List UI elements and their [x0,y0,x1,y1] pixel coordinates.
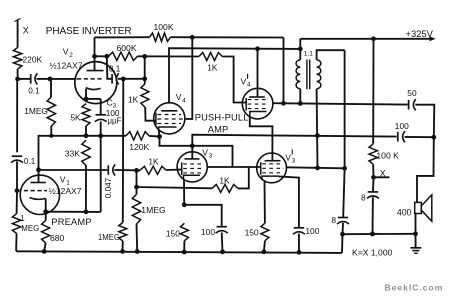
junction 150-b ground [262,249,267,254]
resistor 1K-c (V3 grid) [140,166,166,174]
junction 0.1 coupling branch [104,54,109,59]
wire A right of cap [405,136,434,138]
resistor 150-a [180,223,188,241]
tube V3 plate riser [191,146,193,159]
junction 1K-d branch [134,185,139,190]
wire V2 plate riser to rail [94,37,96,56]
label 1 MEG (left bottom) [20,214,39,233]
resistor 1K (coupling row) [199,53,222,61]
wire 1K-d row left [137,187,213,188]
label V3 [202,147,213,159]
tube V4 cathode lead [158,132,161,137]
wire V'3 cathode bypass jog [279,176,299,227]
junction 5K-bus [84,133,89,138]
tube V1 cathode [30,198,46,200]
label V4 [176,92,187,104]
label 100 (output upper) [395,121,409,131]
wire 100K-b to X node [372,164,374,177]
label V1 [60,174,71,186]
svg-text:V: V [63,47,69,57]
tube V2 plate bar [87,70,104,72]
wire left rail upper [16,79,18,152]
junction 1MEG-b ground [120,249,125,254]
svg-text:V: V [60,174,66,184]
label 0.047 [104,177,113,198]
tube V3 plate side wire [207,166,232,168]
tube V'4 plate riser [257,49,259,97]
capacitor 100-b (V3 bypass) [216,227,228,233]
wire cap to V2 grid [37,78,51,80]
wire 150-b to rail [264,241,265,252]
wire +325V rail [300,38,433,40]
wire 33K down to cathode row [85,165,87,211]
capacitor 100 (output, upper) [398,131,405,142]
wire 1MEG-b down [122,79,125,223]
tube V1 envelope [20,175,59,214]
capacitor 8-a [367,192,379,199]
svg-text:V: V [241,76,247,86]
svg-text:120K: 120K [129,142,149,152]
svg-text:1K: 1K [148,156,159,166]
wire rail corner down to V'4 plate row [283,38,285,104]
wire 1K-d to V'3 grid [238,167,249,188]
wire 600K to 1K row [138,55,199,57]
wire bottom rail corner up [341,234,344,253]
svg-text:4: 4 [182,97,186,104]
label 150-a [166,228,180,238]
resistor 680 [42,221,50,244]
resistor 1MEG-b (bottom) [119,223,127,242]
junction wireA-speaker feed [431,135,436,140]
wire C3 to bus [100,122,102,136]
resistor 1K-a (V4 grid) [141,84,149,107]
svg-text:33K: 33K [65,148,81,158]
junction V1 grid node [15,188,20,193]
label 0.1 (V2 plate coupling) [109,64,121,73]
label 100-c (V'3 bypass) [305,226,319,236]
junction transformer primary top [298,47,303,52]
svg-text:PUSH-PULL: PUSH-PULL [195,113,249,123]
wire V3 cathode bypass jog [184,205,222,226]
label 1MEG-c (V3 grid leak) [141,205,166,215]
wire 1K-c to V3 grid [166,169,182,171]
wire 100-c to rail [298,234,300,253]
svg-text:1K: 1K [219,176,230,186]
tube V'4 cathode to V'3 top [250,116,273,159]
svg-text:100: 100 [395,121,409,131]
junction V2 plate node [92,54,97,59]
tube V'4 grid box [246,98,269,111]
tube V2 grid (dashed) [77,78,104,80]
label K=X 1,000 [352,247,393,257]
svg-text:1K: 1K [207,63,218,73]
svg-text:V: V [176,92,182,102]
svg-text:1:1: 1:1 [304,50,313,57]
wire 8-a to rail [372,197,374,234]
tube V'4 cathode [250,112,267,116]
capacitor C3 100uuF [95,115,107,122]
transformer T1 secondary [317,50,345,88]
svg-text:BeekIC.com: BeekIC.com [385,283,444,293]
tube V'4 plate side wire [273,103,408,104]
wire 50 cap to corner [415,105,434,138]
tube V1 plate bar [30,182,45,184]
label 5K [70,113,81,123]
wire 1MEG-c to rail [136,224,139,252]
tube V2 envelope [75,62,117,104]
label 1/2 12AX7 (V2) [50,60,83,70]
wire right rail [343,233,416,235]
wire 8-b to rail [342,223,345,234]
label 8-a [361,192,366,202]
capacitor 0.1-c (left rail) [11,156,23,162]
wire bus V1 plate corner [39,136,127,170]
label 680 [50,233,65,243]
capacitor 0.1 input [31,73,38,84]
svg-text:X: X [23,26,29,36]
wire 0.047 row [39,169,108,171]
label watermark [385,283,444,293]
junction 1K-a / 0.1b [142,76,147,81]
capacitor 0.047 [108,164,115,175]
resistor 120K [126,132,149,140]
wire 1K row corner [222,57,246,103]
tube V3 envelope [177,152,207,182]
wire secondary bottom [316,89,319,168]
junction V1 cathode node [43,209,48,214]
junction node X (output tap) [371,175,376,180]
tube V'3 plate side wire [286,167,344,168]
junction 33K cathode row [84,209,89,214]
junction right rail / 100K-b [370,232,375,237]
resistor 1MEG-a (left rail) [12,214,20,234]
tube V'3 plate riser [271,159,273,161]
tube V2 cathode [86,88,101,90]
junction 1MEG-bus [49,134,53,138]
junction V3 grid node [134,168,139,173]
transformer T1 core [307,60,310,90]
power +325V arrowhead [430,36,436,41]
svg-text:3: 3 [292,158,296,165]
svg-text:100K: 100K [154,22,174,32]
svg-text:150: 150 [245,228,259,238]
resistor 150-b [261,223,269,241]
junction V1 plate node [36,167,41,172]
wire 100-b to rail [221,233,224,252]
junction V'3 plate / 8uF line [342,166,347,171]
wire V'3 grid entry [233,166,262,168]
label X (output tap) [380,168,386,178]
wire 220K bottom to grid node [17,69,19,79]
wire to coupling cap 0.1 [18,78,31,80]
wire X node to 8-a cap [372,177,375,191]
speaker 400 ohm [415,195,432,221]
tube V2 plate riser [94,56,96,70]
svg-text:0.1: 0.1 [24,157,36,166]
wire 1MEG-b to ground rail [122,241,124,251]
label 33K [65,148,81,158]
svg-text:0.1: 0.1 [109,64,121,73]
junction V2 grid node [48,77,53,82]
wire 680 top [45,212,47,221]
tube V4 grid box [156,113,183,126]
wire V2 grid to 1MEG [50,79,52,97]
label V'3 [285,150,296,165]
wire V2 plate to 600K [95,55,109,57]
svg-text:μμF: μμF [108,117,122,126]
svg-text:1K: 1K [128,95,139,105]
resistor 220K [13,48,21,70]
svg-text:+325V: +325V [406,28,434,39]
tube V'3 envelope [257,153,287,183]
wire V1 cathode row [46,211,101,213]
wire bottom rail [16,251,342,253]
junction C3-bus [98,133,103,138]
junction right rail / speaker [413,231,418,236]
label V'4 [241,74,252,89]
wire 1MEG-a to rail [15,234,17,252]
capacitor 50 (output top) [409,99,416,110]
wire A (V3 node to output bus) [192,135,396,146]
resistor 1MEG (V2 grid leak) [47,97,55,126]
junction 1MEG-b branch [121,77,126,82]
svg-text:1: 1 [20,214,24,223]
svg-text:PHASE INVERTER: PHASE INVERTER [46,26,132,37]
label 1K (coupling row) [207,63,218,73]
tube V3 cathode [184,175,200,180]
resistor 1K-d (V'3 grid) [212,184,238,192]
wire 1K-a top [144,56,146,84]
junction wireA-secondary bottom [315,133,320,138]
tube V4 plate bar [161,110,177,112]
tube V1 grid (dashed) [17,190,47,192]
wire grid node to V2 tube [50,78,77,80]
wire C3 branch down [100,99,102,114]
wire 5K to bus [85,126,87,136]
junction 150-a ground [182,250,187,255]
label 1K-d (V'3 grid) [219,176,230,186]
svg-text:X: X [380,168,386,178]
label 400 (speaker) [397,207,412,217]
transformer T1 primary [296,49,300,104]
junction V4 cathode node [157,134,162,139]
junction grid node V2 input [15,77,20,82]
label 1K-a (V4 grid) [128,95,139,105]
tube V1 plate riser [38,170,40,183]
svg-text:150: 150 [166,228,180,238]
junction 680 ground [42,249,47,254]
junction V'4 plate / rail drop [281,101,286,106]
svg-text:V: V [285,152,291,162]
label 8-b [331,215,336,225]
tube V'3 cathode lead [264,180,266,223]
svg-text:3: 3 [209,153,213,160]
tube V'4 plate bar [249,96,265,98]
label 100K (top) [154,22,174,32]
label C3 [107,98,117,110]
capacitor 8-b [337,218,349,225]
wire 0.1b to 1K-a [118,78,145,80]
svg-text:V: V [202,147,208,157]
capacitor 100-c (V'3 bypass) [293,228,305,234]
junction V'4 plate / primary bottom [298,101,303,106]
capacitor 0.1 (V2 plate coupling) [112,73,119,84]
tube V4 cathode [159,127,177,132]
wire V4 cathode down-right [160,137,193,146]
junction 100-b ground [220,249,225,254]
label 0.1-c (left rail) [24,157,36,166]
label 150-b [245,228,259,238]
label 600K [117,43,137,53]
svg-text:1MEG: 1MEG [24,106,48,116]
svg-text:50: 50 [407,88,417,98]
wire 680 to rail [44,243,45,251]
svg-text:0.047: 0.047 [104,177,113,198]
svg-text:0.1: 0.1 [28,86,40,95]
tube V1 cathode lead [45,199,47,212]
svg-text:100: 100 [305,226,319,236]
wire 8-b above cap [343,168,344,217]
label +325V [406,28,434,39]
label PREAMP [51,217,91,227]
junction 100-c ground [297,250,302,255]
wire V4 grid feed vertical [186,37,193,119]
tube V3 grid box [182,162,204,175]
tube V'3 grid box [261,162,284,175]
junction V2 cathode node [84,97,89,102]
label 100-b (V3 bypass) [201,227,215,237]
wire 1K-a to V4 grid [145,107,156,121]
tube V'3 cathode [262,176,279,180]
junction right rail / 8-a [370,232,375,237]
wire secondary top drop (8uF line) [344,50,346,168]
svg-text:100: 100 [201,227,215,237]
svg-text:1MEG: 1MEG [98,233,120,242]
resistor 1MEG-c (V3 grid leak) [132,194,140,224]
wire left rail mid [16,161,18,190]
svg-text:600K: 600K [117,43,137,53]
junction V3 cathode node [182,202,187,207]
wire speaker feed [417,137,434,202]
svg-text:220K: 220K [23,55,43,65]
tube V3 plate bar [184,158,199,160]
junction 1MEG-c ground [135,249,140,254]
tube V'4 envelope [242,88,273,119]
svg-text:½12AX7: ½12AX7 [50,60,83,70]
resistor 33K [82,140,90,165]
label PHASE INVERTER [46,26,132,37]
label 1MEG (V2 grid leak) [24,106,48,116]
junction +325V feed [371,36,376,41]
wire primary top to +325V rail [299,39,301,49]
svg-text:680: 680 [50,233,65,243]
wire 0.1b branch down [107,56,112,79]
tube V4 envelope [154,103,185,134]
label 1K-c (V3 grid) [148,156,159,166]
svg-text:MEG: MEG [21,224,39,233]
svg-text:5K: 5K [70,113,81,123]
label uuF (C3) [108,117,122,126]
resistor 100K (top) [150,33,171,41]
tube V2 cathode lead [85,89,87,99]
svg-text:K=X 1,000: K=X 1,000 [352,247,393,257]
svg-text:4: 4 [247,82,251,89]
wire top rail left segment [95,36,150,38]
label X (input) [23,26,29,36]
junction 1K-a top [142,54,147,59]
svg-text:½12AX7: ½12AX7 [49,186,82,196]
resistor 100K-b [369,39,377,165]
svg-text:PREAMP: PREAMP [51,217,91,227]
wire V3 grid leak down [136,170,138,194]
svg-text:1MEG: 1MEG [141,205,166,215]
label 0.1 (input cap) [28,86,40,95]
tube V3 cathode lead [183,180,185,205]
svg-text:100 K: 100 K [376,150,399,160]
svg-text:AMP: AMP [208,125,229,135]
junction top rail / V4 grid feed [190,35,195,40]
label 1:1 (T1) [304,50,313,57]
svg-text:8: 8 [361,192,366,202]
label V2 [63,47,74,60]
junction V'4 plate riser [255,46,260,51]
tube V'3 plate bar [265,160,281,162]
resistor 600K [109,52,138,60]
label 50 (output) [407,88,417,98]
wire V2 cathode to C3 branch [86,98,101,100]
junction V'3 plate / secondary bottom [315,166,320,171]
label 100 (C3) [106,109,120,118]
label 1MEG-b (bottom) [98,233,120,242]
svg-text:2: 2 [69,52,73,59]
svg-text:400: 400 [397,207,412,217]
wire speaker bottom [415,214,417,234]
wire B (to V'3 grid) [192,146,232,167]
label 1/2 12AX7 (V1) [49,186,82,196]
label AMP [208,125,229,135]
wire 150-a to rail [183,241,185,252]
label PUSH-PULL [195,113,249,123]
node X stub [374,176,390,178]
label 120K [129,142,149,152]
svg-text:8: 8 [331,215,336,225]
label 220K [23,55,43,65]
wire 1MEG to bus [50,126,52,136]
junction V3 plate-cap node [190,143,195,148]
wire y48 row (plate caps feed) [169,48,300,103]
node X input terminal [15,19,21,48]
wire left rail lower [16,191,18,214]
resistor 5K [82,104,90,126]
wire 0.047 to grid node [114,169,140,171]
ground symbol [410,234,421,254]
junction right rail / 8-b [340,232,345,237]
label 100 K (right) [376,150,399,160]
wire 120K to V4 cathode [149,135,160,138]
wire top rail right segment [171,36,284,38]
wire cathode row up to C3 node [100,137,102,212]
